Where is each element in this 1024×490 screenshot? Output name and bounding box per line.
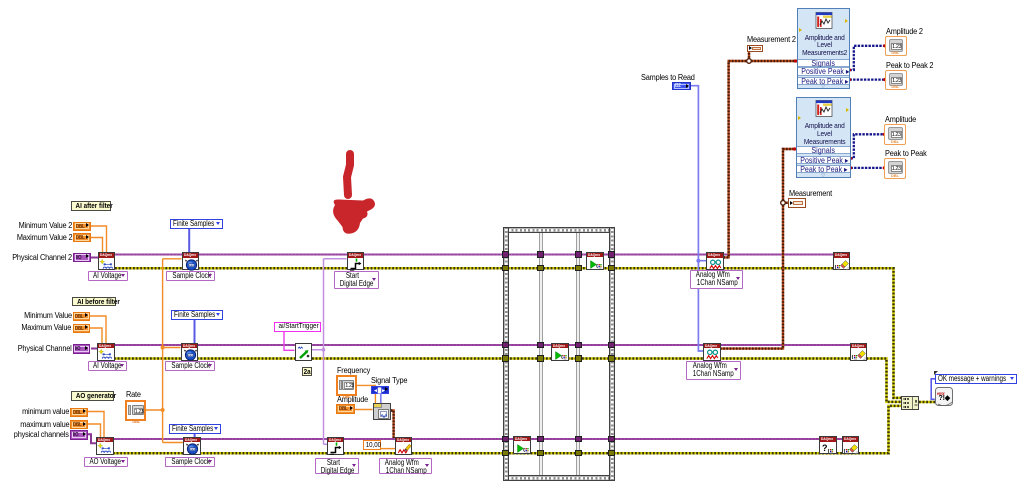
- label: Frequency: [337, 366, 373, 375]
- wire: positive peak -> Amplitude: [851, 134, 885, 158]
- selector label: Analog Wfm 1Chan NSamp row3: [379, 458, 432, 475]
- free label: AI after filter: [71, 201, 111, 211]
- DAQmx Create Virtual Channel (AO Voltage): [96, 437, 114, 455]
- label: Samples to Read: [641, 73, 699, 82]
- wire: finite samples 3 -> timing3: [194, 433, 196, 437]
- terminal: Maximum Value: [73, 324, 91, 333]
- wire: task row3 (AO generator): [113, 438, 850, 440]
- wire: error merge -> error handler: [919, 401, 935, 404]
- wire: minimum value 2 -> create1: [91, 226, 107, 253]
- subVI: Get Terminal Name with Device Prefix (2a): [295, 343, 313, 361]
- wire: peak to peak -> Peak to Peak: [851, 167, 885, 169]
- wire: waveform read1 -> Amplitude and Level Measurements2: [724, 61, 798, 257]
- DAQmx Timing (Sample Clock) row1: [182, 252, 200, 270]
- DAQmx Clear Task row2: [850, 343, 868, 361]
- label: physical channels: [0, 430, 69, 439]
- wire: branch -> Measurement 2 terminal: [748, 52, 750, 62]
- enum constant: Finite Samples row3: [169, 424, 221, 434]
- svg-text:?: ?: [822, 443, 828, 453]
- label: Maximum Value: [0, 323, 72, 332]
- label: minimum value: [0, 407, 69, 416]
- label: Measurement 2: [747, 35, 800, 44]
- terminal: physical channels: [70, 430, 88, 440]
- terminal: Physical Channel: [73, 344, 91, 354]
- indicator: Peak to Peak 2: [885, 70, 907, 91]
- wire: finite samples 2 -> timing2: [194, 319, 196, 344]
- terminal: Minimum Value: [73, 312, 91, 321]
- label: Maximum Value 2: [0, 233, 72, 242]
- wire: waveform read2 -> Amplitude and Level Measurements: [720, 149, 796, 349]
- wire: peak to peak 2 -> Peak to Peak 2: [850, 78, 885, 80]
- wire: maximum value 2 -> create1: [91, 238, 103, 253]
- control: Frequency: [336, 375, 357, 396]
- wire: physical channels stub: [88, 434, 97, 443]
- wire: error row3 -> merge in3: [113, 406, 901, 453]
- enum constant: Finite Samples row1: [170, 219, 223, 229]
- wire: error row2 -> merge in2: [114, 359, 901, 402]
- DAQmx Read (Analog Wfm 1Chan NSamp) row1: [706, 252, 724, 270]
- selector label: Analog Wfm 1Chan NSamp row1: [690, 270, 743, 289]
- label: Physical Channel: [0, 344, 72, 353]
- label: Measurement: [789, 189, 836, 198]
- wire: physical channel stub: [91, 348, 98, 350]
- wire: task row2 (AI before filter): [114, 344, 858, 346]
- selector label: Sample Clock row2: [165, 361, 215, 371]
- selector label: AO Voltage row3: [84, 457, 128, 468]
- label: Amplitude 2: [886, 27, 926, 36]
- wire: maximum value(AO) -> create3: [88, 424, 101, 437]
- label: Amplitude: [885, 115, 919, 124]
- wire: rate tree to timing nodes: [146, 259, 183, 443]
- DAQmx Trigger (Start Digital Edge) row1: [347, 252, 365, 270]
- wire: minimum value(AO) -> create3: [88, 412, 105, 438]
- terminal: Maximum Value 2: [73, 233, 91, 242]
- DAQmx Write (Analog Wfm 1Chan NSamp): [395, 437, 413, 455]
- label: Minimum Value 2: [0, 221, 72, 230]
- indicator terminal: Measurement 2: [747, 45, 764, 53]
- label: Amplitude constant label: [337, 395, 371, 404]
- enum marker triangle: [934, 371, 938, 375]
- wire: function generator -> DAQmx write: [391, 411, 394, 439]
- wire: OK message enum -> error handler: [931, 379, 935, 400]
- connector dots: [883, 44, 886, 47]
- selector label: Sample Clock row1: [166, 271, 215, 281]
- numeric constant: 10,00: [363, 440, 381, 450]
- free label: AO generator: [71, 391, 114, 401]
- DAQmx Is Task Done?: [819, 436, 837, 454]
- wire: 10,00 -> write timeout: [381, 448, 395, 450]
- DAQmx Read (Analog Wfm 1Chan NSamp) row2: [703, 343, 721, 361]
- wire: maximum value -> create2: [90, 328, 102, 343]
- wire: task row1 (AI after filter): [115, 254, 841, 256]
- string constant: ai/StartTrigger: [274, 322, 321, 332]
- DAQmx Create Virtual Channel (AI Voltage) - AI after filter: [98, 252, 116, 270]
- junction: samples to read: [696, 259, 700, 263]
- DAQmx Start Task row3 (frame 1): [513, 436, 531, 454]
- annotation: red arrow: [327, 145, 387, 240]
- label: Rate: [126, 390, 142, 399]
- control: Signal Type: [371, 386, 389, 395]
- Express VI: Amplitude and Level Measurements: [796, 97, 851, 178]
- DAQmx Timing (Sample Clock) row3: [183, 437, 201, 455]
- junction: waveform branches: [747, 59, 752, 64]
- structure tunnels: [502, 251, 509, 257]
- control: Samples to Read: [672, 82, 691, 90]
- wire: branch -> Measurement terminal: [783, 202, 788, 204]
- indicator: Amplitude 2: [885, 36, 907, 56]
- wire: finite samples 1 -> timing1: [188, 229, 190, 253]
- indicator terminal: Measurement: [788, 198, 806, 208]
- junction: rate wire: [161, 408, 165, 412]
- selector label: AI Voltage row1: [88, 271, 128, 281]
- selector label: Sample Clock row3: [165, 457, 215, 468]
- selector label: AI Voltage row2: [88, 361, 128, 371]
- label: Signal Type: [371, 376, 410, 385]
- DAQmx Create Virtual Channel (AI Voltage) - AI before filter: [97, 343, 115, 361]
- junction: terminal name: [322, 348, 326, 352]
- wire: frequency -> function generator: [357, 385, 375, 403]
- terminal: minimum value: [70, 408, 88, 417]
- label: maximum value: [0, 420, 69, 429]
- label: Physical Channel 2: [0, 253, 72, 262]
- wire: physical channel 2 stub: [91, 257, 99, 259]
- wire: positive peak 2 -> Amplitude 2: [850, 46, 885, 70]
- label: Peak to Peak 2: [886, 61, 937, 70]
- indicator: Amplitude: [884, 124, 906, 145]
- selector label: Start Digital Edge row1: [334, 271, 379, 290]
- Merge Errors VI: [901, 396, 920, 410]
- wire: ai/StartTrigger -> get terminal name: [284, 332, 295, 351]
- terminal: Amplitude constant: [336, 404, 355, 414]
- wire: samples to read -> DAQmx read: [691, 86, 707, 351]
- terminal: Minimum Value 2: [73, 222, 91, 231]
- DAQmx Timing (Sample Clock) row2: [181, 343, 199, 361]
- DAQmx Clear Task row3: [842, 436, 860, 454]
- label: Minimum Value: [0, 311, 72, 320]
- wire: error row1 -> merge in1: [115, 268, 901, 398]
- DAQmx Clear Task row1: [833, 252, 851, 270]
- DAQmx Start Task row2 (frame 2): [551, 343, 569, 361]
- flat sequence structure: [503, 227, 615, 481]
- indicator: Peak to Peak: [884, 158, 906, 180]
- wire: amplitude -> function generator: [355, 409, 373, 411]
- subVI: Basic Function Generator (sine): [373, 403, 391, 420]
- free label: AI before filter: [72, 297, 116, 307]
- free label: 2a: [302, 367, 312, 376]
- selector label: Analog Wfm 1Chan NSamp row2: [686, 361, 741, 380]
- DAQmx Start Task row1 (frame 3): [586, 252, 604, 270]
- control: Rate: [125, 400, 146, 421]
- terminal: maximum value: [70, 420, 88, 429]
- terminal: Physical Channel 2: [73, 253, 91, 263]
- DAQmx Trigger (Start Digital Edge) row3: [327, 437, 345, 455]
- Express VI: Amplitude and Level Measurements2: [797, 8, 850, 89]
- wire: signal type -> function generator: [380, 394, 382, 404]
- wire: terminal name wire: [312, 259, 347, 445]
- wire: minimum value -> create2: [90, 316, 106, 343]
- enum constant: OK message + warnings: [935, 374, 1017, 384]
- enum constant: Finite Samples row2: [171, 310, 223, 320]
- selector label: Start Digital Edge row3: [315, 458, 359, 475]
- subVI: Simple Error Handler: [935, 387, 953, 406]
- label: Peak to Peak: [885, 149, 930, 158]
